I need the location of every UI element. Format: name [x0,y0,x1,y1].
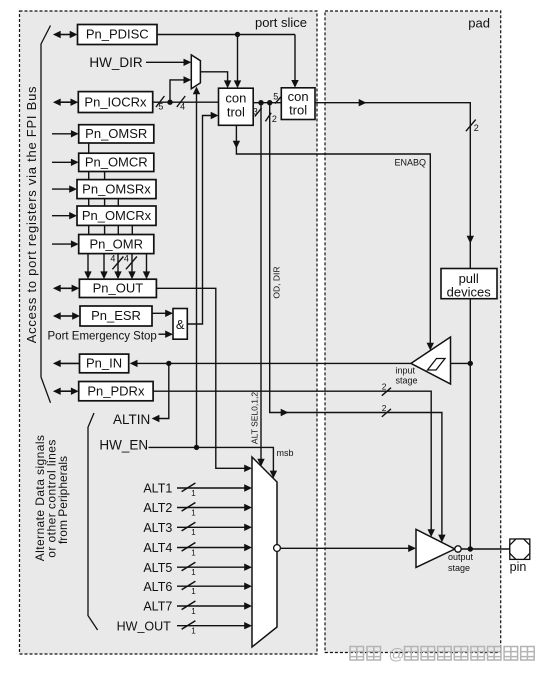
svg-text:4: 4 [110,254,115,264]
register Pn_OMR [79,235,154,254]
direction arrow on OD,DIR wire [281,409,289,416]
width slash 4 on IOCR wire [177,96,185,107]
wire direction mux output to control 1 [200,72,227,81]
register Pn_OMCR [79,153,154,171]
width slash (second 4) [126,257,137,270]
AND gate for emergency stop [173,309,187,340]
svg-text:Pn_OUT: Pn_OUT [93,281,144,296]
junction on Pn_IOCRx wire [167,100,172,105]
svg-text:ALTIN: ALTIN [113,412,150,427]
svg-text:1: 1 [191,548,196,557]
svg-text:con: con [225,91,246,106]
svg-text:port slice: port slice [255,15,307,30]
svg-text:1: 1 [191,627,196,636]
svg-text:ALT6: ALT6 [143,580,172,594]
wire IOCR branch up to direction mux [170,80,184,102]
width slash (first 4) [112,257,123,270]
svg-text:msb: msb [277,448,294,458]
wire control 2 to pull devices [315,103,470,269]
svg-text:ALT3: ALT3 [143,521,172,535]
wire Port Emergency Stop to AND gate [159,333,167,335]
register Pn_OMSR [79,125,154,143]
bus arrow Pn_IN (read) [59,362,80,364]
control box 1 [219,88,254,125]
svg-text:from Peripherals: from Peripherals [56,456,70,544]
svg-text:output: output [448,552,474,562]
svg-text:pad: pad [468,16,490,31]
svg-text:stage: stage [396,376,418,386]
svg-text:2: 2 [474,123,479,133]
width slash 3 on ALTSEL drop [255,108,262,117]
junction on Pn_PDISC wire [235,32,240,37]
FPI bus bracket (left) [41,26,51,403]
hysteresis symbol [428,359,446,371]
wire down into control 2 [294,35,296,81]
wire output stage to pin [461,548,510,550]
svg-text:1: 1 [191,607,196,616]
wire branch down into control 1 [237,35,239,82]
net OD,DIR wire to output stage [270,103,442,536]
svg-text:HW_OUT: HW_OUT [117,619,172,633]
svg-text:1: 1 [191,508,196,517]
port slice region (dashed box, gray fill) [20,11,318,654]
svg-text:Pn_OMCRx: Pn_OMCRx [82,208,152,223]
pad net vertical wire (pull devices to pin node) [469,299,471,549]
node OD/DIR branch junction [267,100,272,105]
width slash 5 before control 2 [275,97,281,104]
svg-text:Pn_IOCRx: Pn_IOCRx [84,94,147,109]
wire HW_EN to output mux msb select [149,447,274,471]
svg-text:ALT SEL0,1,2: ALT SEL0,1,2 [250,392,260,444]
direction arrow on ENABQ wire [233,141,240,149]
direction mux (small trapezoid) [191,55,200,89]
svg-text:ENABQ: ENABQ [394,158,426,168]
pad region (dashed box, gray fill) [325,11,501,653]
bus arrow Pn_OMR [52,243,73,245]
output multiplexer (large trapezoid) [252,457,277,647]
svg-text:Pn_OMCR: Pn_OMCR [85,155,148,170]
register Pn_IN [80,354,129,373]
watermark [350,647,364,661]
register Pn_ESR [80,306,152,326]
wire HW_EN select up to direction mux [196,94,198,448]
svg-text:Pn_OMSR: Pn_OMSR [85,126,147,141]
svg-text:1: 1 [191,587,196,596]
pull devices box [441,269,497,299]
svg-text:input: input [396,366,416,376]
junction pad node at output [468,546,473,551]
width slash 2 on pull wire [466,120,476,132]
wires OMCRx to OMR [88,225,90,234]
arrows OMR to OUT (5 set/clear lines) [87,254,89,274]
bus arrow Pn_IOCRx (bidirectional) [59,101,72,103]
svg-text:pin: pin [510,560,527,574]
svg-text:4: 4 [180,102,185,112]
svg-text:5: 5 [158,102,163,112]
svg-text:1: 1 [191,489,196,498]
svg-text:2: 2 [272,114,277,124]
bus arrow Pn_OUT (bidirectional) [59,287,74,289]
svg-text:1: 1 [191,528,196,537]
wire Pn_PDISC to control boxes [157,34,295,36]
direction arrow down to pull devices [467,236,474,244]
svg-text:@: @ [389,647,405,664]
node ALTSEL branch junction [258,100,263,105]
svg-text:stage: stage [448,563,470,573]
bus arrow Pn_PDISC (bidirectional) [59,34,72,36]
svg-text:Pn_OMSRx: Pn_OMSRx [82,181,151,196]
wire OMSR to OMCR [88,143,90,153]
wire branch to ALTIN [159,363,169,418]
svg-text:ALT2: ALT2 [143,501,172,515]
svg-text:devices: devices [447,285,492,300]
bus arrow Pn_OMCR [52,161,73,163]
register Pn_PDRx [79,382,153,401]
wire AND gate output to control 1 [187,116,211,325]
wire Pn_ESR to AND gate [152,312,167,314]
svg-text:Pn_IN: Pn_IN [86,356,122,371]
bus arrow Pn_OMCRx [52,215,71,217]
junction on HW_EN wire [194,445,199,450]
svg-text:4: 4 [124,254,129,264]
net ALTSEL0,1,2 vertical wire to output mux select [260,103,262,460]
svg-text:Pn_OMR: Pn_OMR [90,236,143,251]
wire input stage to Pn_IN [136,362,411,364]
bus arrow Pn_PDRx (bidirectional) [59,390,73,392]
svg-text:Port Emergency Stop: Port Emergency Stop [48,331,157,343]
svg-text:ALT5: ALT5 [143,561,172,575]
svg-text:2: 2 [382,403,387,413]
control box 2 [281,88,315,120]
svg-text:ALT1: ALT1 [143,482,172,496]
wire Pn_PDRx to output stage [153,391,431,530]
width slash 2 on OD/DIR drop [265,113,271,122]
svg-text:Pn_PDRx: Pn_PDRx [87,383,145,398]
input stage buffer (Schmitt trigger) [411,337,451,384]
wire Pn_OUT to output mux input 0 [156,288,245,468]
wire pad node to input stage [451,362,471,364]
output stage bubble [455,546,461,552]
width slash 2 on Pn_PDRx wire [382,388,391,396]
svg-text:&: & [176,317,185,332]
junction on Pn_IN wire [166,361,171,366]
register Pn_OMSRx [77,180,156,199]
output stage driver [416,529,455,567]
svg-text:ALT7: ALT7 [143,600,172,614]
svg-text:trol: trol [227,105,245,120]
net ENABQ wire from control 1 to input stage [236,125,430,344]
register Pn_PDISC [78,25,158,45]
output mux select node (circle) [274,545,281,552]
register Pn_OMCRx [77,206,156,225]
pin pad symbol (octagon in square) [510,539,530,559]
wires OMCR to OMSRx [88,172,90,180]
register Pn_IOCRx [78,92,152,113]
svg-text:Pn_PDISC: Pn_PDISC [86,27,149,42]
peripheral signals bracket (lower left) [88,413,98,630]
svg-text:Pn_ESR: Pn_ESR [91,308,141,323]
wire output mux to output stage [280,547,408,549]
direction arrow on control 2 wire [359,99,367,106]
svg-text:trol: trol [289,102,307,117]
svg-text:2: 2 [382,381,387,391]
register Pn_OUT [79,279,156,297]
bus arrow Pn_OMSR [52,133,73,135]
junction pad node at input stage [468,361,473,366]
wires OMSRx to OMCRx [88,199,90,206]
width slash 2 on OD,DIR wire [382,409,391,417]
svg-text:1: 1 [191,568,196,577]
wire HW_DIR to direction mux [146,61,184,63]
svg-text:HW_EN: HW_EN [99,438,148,453]
bus arrow Pn_OMSRx [52,188,71,190]
width slash 5 on IOCR wire [156,96,164,107]
wire Pn_IOCRx to control 1 [153,101,219,103]
svg-text:ALT4: ALT4 [143,541,172,555]
bus arrow Pn_ESR (bidirectional) [59,315,74,317]
wire control 1 to control 2 [253,102,281,104]
svg-text:Access to port registers via t: Access to port registers via the FPI Bus [24,86,39,344]
svg-text:OD, DIR: OD, DIR [271,266,281,298]
svg-text:HW_DIR: HW_DIR [89,55,142,70]
